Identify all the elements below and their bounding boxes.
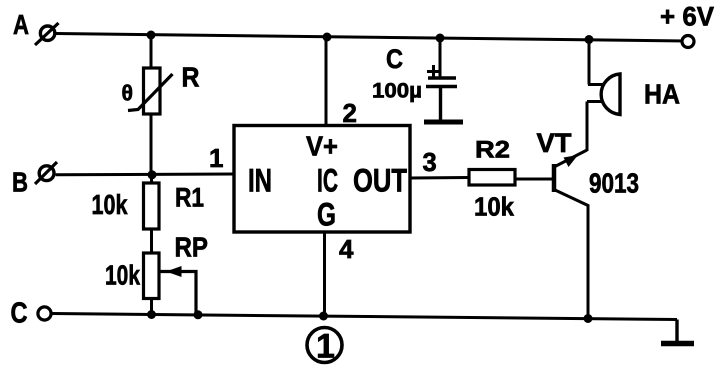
- junction top rail / capacitor C: [436, 34, 445, 43]
- RP wiper arrow: [160, 266, 196, 314]
- capacitor C top plate: [428, 76, 456, 79]
- svg-text:R: R: [182, 62, 200, 93]
- speaker HA top stub: [588, 83, 605, 86]
- thermistor R diagonal stroke: [128, 74, 173, 111]
- resistor R1 body: [144, 183, 160, 229]
- svg-text:C: C: [386, 44, 403, 74]
- svg-text:4: 4: [339, 234, 354, 264]
- capacitor C plus mark: [427, 65, 440, 78]
- svg-text:100µ: 100µ: [372, 80, 422, 103]
- wire R1 to potentiometer RP: [150, 229, 153, 253]
- capacitor C stem top: [439, 38, 442, 77]
- junction bottom rail / IC pin 4: [319, 312, 328, 321]
- figure number 1 circle: [307, 328, 342, 366]
- potentiometer RP body: [144, 253, 160, 299]
- junction bottom rail / transistor collector: [584, 314, 593, 323]
- junction top rail / IC pin 2: [323, 33, 332, 42]
- speaker HA bottom stub: [587, 100, 605, 103]
- wire top rail A to +6V: [56, 34, 686, 42]
- junction top rail / speaker HA: [585, 35, 594, 44]
- svg-text:IN: IN: [248, 163, 272, 199]
- svg-text:R2: R2: [475, 137, 510, 164]
- svg-text:V+: V+: [306, 131, 338, 162]
- wire emitter to speaker: [586, 102, 589, 152]
- wire IC pin 2 to top rail: [325, 37, 328, 126]
- terminal B (slashed circle): [35, 162, 57, 184]
- wire R2 to transistor base: [515, 178, 552, 181]
- svg-text:10k: 10k: [474, 192, 514, 222]
- resistor R2 body: [469, 170, 515, 186]
- ground stub wire: [675, 320, 678, 343]
- op IC box U1: [234, 126, 410, 233]
- wire RP to bottom rail: [150, 299, 153, 315]
- svg-text:RP: RP: [175, 232, 209, 263]
- svg-text:9013: 9013: [589, 168, 639, 199]
- svg-text:G: G: [317, 197, 336, 233]
- terminal C (open circle): [38, 307, 51, 320]
- capacitor C stem bottom: [439, 87, 442, 122]
- transistor VT base bar: [552, 164, 557, 192]
- svg-text:R1: R1: [175, 183, 204, 213]
- svg-text:1: 1: [316, 328, 335, 366]
- thermistor R body: [144, 68, 161, 114]
- capacitor C end bar: [424, 120, 463, 125]
- junction top rail / thermistor: [147, 31, 156, 40]
- svg-text:HA: HA: [644, 79, 680, 110]
- wire node B to resistor R1: [150, 175, 153, 183]
- wire thermistor R to node B rail: [150, 114, 153, 175]
- svg-text:3: 3: [423, 149, 437, 177]
- junction bottom rail / RP bottom: [147, 310, 156, 319]
- wire IC pin 4 to bottom rail: [323, 232, 326, 316]
- svg-text:VT: VT: [537, 128, 573, 158]
- transistor VT collector lead: [555, 190, 588, 319]
- svg-text:B: B: [12, 167, 28, 198]
- ground bar: [661, 341, 694, 347]
- capacitor C bottom plate: [426, 85, 457, 88]
- junction bottom rail / RP wiper: [194, 310, 203, 319]
- wire bottom rail: [52, 314, 678, 320]
- svg-text:+ 6V: + 6V: [660, 2, 714, 32]
- wire IC pin 3 OUT to R2: [410, 176, 469, 180]
- svg-text:10k: 10k: [105, 260, 140, 291]
- speaker HA body: [601, 74, 620, 115]
- svg-text:1: 1: [209, 143, 223, 173]
- wire top rail to thermistor R: [150, 35, 153, 68]
- svg-text:C: C: [11, 298, 28, 330]
- +6V terminal (open circle): [682, 36, 694, 48]
- transistor VT emitter lead with arrow: [555, 150, 587, 167]
- terminal A (slashed circle): [35, 23, 59, 45]
- svg-text:θ: θ: [122, 81, 134, 106]
- svg-text:IC: IC: [317, 163, 338, 199]
- svg-text:A: A: [13, 9, 29, 40]
- svg-text:10k: 10k: [92, 189, 128, 220]
- wire top rail to speaker HA: [588, 40, 591, 85]
- junction node B / divider: [148, 170, 157, 179]
- svg-text:2: 2: [343, 98, 357, 128]
- svg-text:OUT: OUT: [353, 163, 407, 199]
- wire node B rail to IC pin 1: [56, 173, 234, 177]
